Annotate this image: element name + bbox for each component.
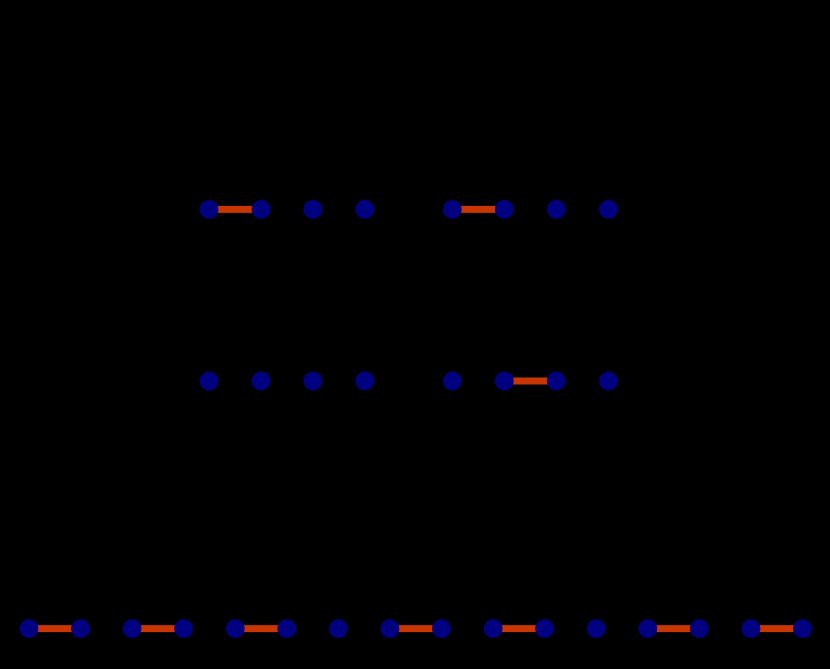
wire: matched edge row2 groupB nodes 2-3 bbox=[504, 378, 556, 385]
node row3 n9 bbox=[432, 619, 451, 638]
node row3 n2 bbox=[71, 619, 90, 638]
node row2 groupA n1 bbox=[200, 372, 219, 391]
node row1 groupA n4 bbox=[356, 200, 375, 219]
node row1 groupB n3 bbox=[547, 200, 566, 219]
node row2 groupB n2 bbox=[495, 372, 514, 391]
wire: matched edge row3 nodes 15-16 bbox=[751, 625, 803, 632]
wire: matched edge row3 nodes 13-14 bbox=[648, 625, 700, 632]
node row3 n12 bbox=[587, 619, 606, 638]
node row2 groupA n4 bbox=[356, 372, 375, 391]
node row3 n6 bbox=[277, 619, 296, 638]
node row3 n11 bbox=[535, 619, 554, 638]
node row3 n10 bbox=[484, 619, 503, 638]
node row3 n15 bbox=[742, 619, 761, 638]
node row2 groupB n3 bbox=[547, 372, 566, 391]
node row3 n5 bbox=[226, 619, 245, 638]
node row1 groupA n3 bbox=[304, 200, 323, 219]
node row1 groupB n4 bbox=[599, 200, 618, 219]
node row3 n14 bbox=[690, 619, 709, 638]
node row3 n7 bbox=[329, 619, 348, 638]
wire: matched edge row1 groupA nodes 1-2 bbox=[209, 206, 261, 213]
node row3 n13 bbox=[638, 619, 657, 638]
node row1 groupA n1 bbox=[200, 200, 219, 219]
wire: matched edge row3 nodes 3-4 bbox=[132, 625, 184, 632]
wire: matched edge row1 groupB nodes 1-2 bbox=[452, 206, 504, 213]
node row2 groupB n1 bbox=[443, 372, 462, 391]
node row3 n8 bbox=[381, 619, 400, 638]
node row3 n16 bbox=[793, 619, 812, 638]
node row3 n3 bbox=[123, 619, 142, 638]
wire: matched edge row3 nodes 5-6 bbox=[235, 625, 287, 632]
node row3 n4 bbox=[174, 619, 193, 638]
node row2 groupA n2 bbox=[252, 372, 271, 391]
wire: matched edge row3 nodes 8-9 bbox=[390, 625, 442, 632]
node row1 groupB n2 bbox=[495, 200, 514, 219]
node row3 n1 bbox=[20, 619, 39, 638]
wire: matched edge row3 nodes 1-2 bbox=[29, 625, 81, 632]
node row1 groupB n1 bbox=[443, 200, 462, 219]
node row2 groupB n4 bbox=[599, 372, 618, 391]
wire: matched edge row3 nodes 10-11 bbox=[493, 625, 544, 632]
node row1 groupA n2 bbox=[252, 200, 271, 219]
node row2 groupA n3 bbox=[304, 372, 323, 391]
